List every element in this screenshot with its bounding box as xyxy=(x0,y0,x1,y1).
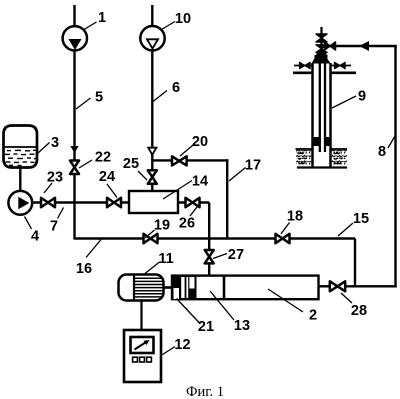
svg-text:2: 2 xyxy=(309,308,317,324)
motor 11 xyxy=(119,275,173,301)
svg-text:17: 17 xyxy=(245,158,261,174)
leader 14 xyxy=(163,181,192,200)
leader 9 xyxy=(332,96,356,108)
svg-text:10: 10 xyxy=(175,11,191,27)
wellhead valve upper xyxy=(316,34,327,42)
tubing walls xyxy=(319,63,321,152)
wire branch to valve 20 xyxy=(152,159,228,239)
svg-text:16: 16 xyxy=(76,261,92,277)
well bottom line xyxy=(297,166,347,168)
svg-text:13: 13 xyxy=(234,318,250,334)
leader 21 xyxy=(177,299,200,324)
flow arrow open on line 6 xyxy=(148,148,156,155)
svg-text:12: 12 xyxy=(174,337,190,353)
valve 22 xyxy=(70,161,79,175)
svg-text:9: 9 xyxy=(358,89,366,105)
leader 28 xyxy=(341,293,352,303)
well 9 xyxy=(293,27,356,168)
svg-text:7: 7 xyxy=(50,219,58,235)
leader 10 xyxy=(162,22,176,30)
svg-text:15: 15 xyxy=(353,211,369,227)
leader 1 xyxy=(84,22,97,30)
svg-text:5: 5 xyxy=(95,90,103,106)
pump P10 circle xyxy=(140,26,164,50)
side valve left xyxy=(294,65,312,67)
svg-text:19: 19 xyxy=(154,218,170,234)
leader 7 xyxy=(58,208,64,219)
leader 12 xyxy=(161,347,175,356)
svg-text:23: 23 xyxy=(47,170,63,186)
side valve right xyxy=(331,65,352,67)
wellhead gland xyxy=(315,55,328,58)
wellhead shoulder xyxy=(312,58,331,64)
svg-text:20: 20 xyxy=(192,134,208,150)
leader 18 xyxy=(281,223,290,234)
svg-text:28: 28 xyxy=(351,303,367,319)
flow arrow to well xyxy=(359,41,369,51)
svg-text:26: 26 xyxy=(179,216,195,232)
motor stand wire xyxy=(140,301,142,331)
leader 25 xyxy=(138,171,147,180)
wire branch to well xyxy=(322,45,397,47)
wire line 6 vertical from pump 10 xyxy=(151,5,153,191)
packers xyxy=(314,137,320,146)
flow arrow on line 5 xyxy=(70,146,78,153)
wire line 15 down to outlet xyxy=(354,239,356,287)
tank 3 xyxy=(4,126,38,168)
leader 20 xyxy=(180,146,193,157)
svg-text:Фиг. 1: Фиг. 1 xyxy=(186,384,224,399)
valve 23 xyxy=(41,198,55,207)
leader 15 xyxy=(338,223,353,236)
leader 24 xyxy=(107,184,117,198)
wire line 5 vertical from pump 1 xyxy=(73,5,75,240)
ground hatch right xyxy=(332,149,348,166)
valve 27 xyxy=(205,250,214,263)
pump P4 circle xyxy=(8,191,32,215)
valve 25 xyxy=(148,170,157,184)
svg-text:18: 18 xyxy=(287,209,303,225)
leader 11 xyxy=(145,262,160,274)
box 14 xyxy=(129,191,178,213)
leader 8 xyxy=(388,136,395,148)
svg-text:21: 21 xyxy=(198,319,214,335)
svg-text:24: 24 xyxy=(99,169,115,185)
wire pump 4 to box 14 xyxy=(33,201,130,203)
valve 18 xyxy=(276,234,290,243)
wire line 8 vertical xyxy=(394,46,396,288)
piston 13 xyxy=(223,276,226,300)
leader 2 xyxy=(268,289,303,312)
svg-text:8: 8 xyxy=(378,144,386,160)
leader 23 xyxy=(44,183,52,193)
wellhead stem xyxy=(320,27,322,63)
wellhead flange xyxy=(293,72,313,75)
leader 26 xyxy=(190,207,197,216)
svg-text:25: 25 xyxy=(123,156,139,172)
svg-text:4: 4 xyxy=(31,229,39,245)
leader 16 xyxy=(86,240,101,258)
leader 13 xyxy=(210,291,234,320)
wire line 16 horizontal xyxy=(75,237,356,239)
valve 19 xyxy=(144,234,158,243)
casing walls xyxy=(311,63,314,168)
leader 17 xyxy=(229,168,246,182)
svg-text:14: 14 xyxy=(192,174,208,190)
wire valve 26 branch xyxy=(178,203,209,277)
wellhead valve lower xyxy=(316,45,327,53)
ground hatch left xyxy=(296,149,312,166)
leader 22 xyxy=(79,160,92,168)
wire cylinder outlet xyxy=(319,285,397,287)
svg-text:3: 3 xyxy=(51,135,59,151)
svg-text:27: 27 xyxy=(228,247,244,263)
svg-text:11: 11 xyxy=(158,251,173,267)
cylinder 2 xyxy=(172,276,319,300)
leader 27 xyxy=(213,254,227,259)
svg-text:22: 22 xyxy=(95,150,111,166)
leader 3 xyxy=(38,143,50,154)
svg-text:6: 6 xyxy=(172,80,180,96)
wellhead valve on branch xyxy=(325,42,336,50)
leader 4 xyxy=(25,217,32,230)
valve 20 xyxy=(172,156,187,165)
valve 28 xyxy=(330,281,345,291)
leader 6 xyxy=(153,91,167,102)
wire tank to pump 4 xyxy=(19,167,21,191)
svg-text:1: 1 xyxy=(98,10,106,26)
control box 12 xyxy=(124,330,161,382)
leader 5 xyxy=(76,98,91,109)
wellhead cone xyxy=(316,53,327,56)
valve 26 xyxy=(186,198,200,207)
leader 19 xyxy=(145,230,155,238)
valve 24 xyxy=(107,198,121,207)
pump P1 circle xyxy=(63,26,87,50)
